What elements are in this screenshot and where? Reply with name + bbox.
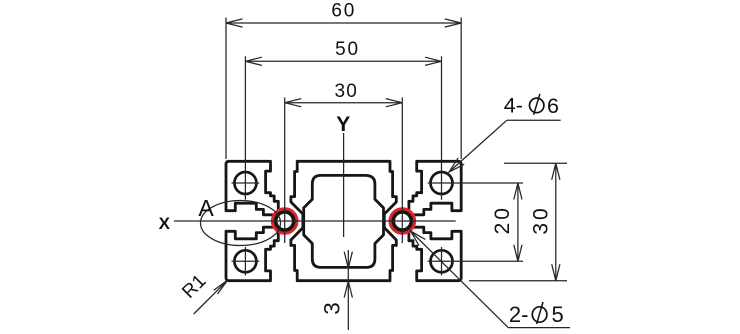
svg-text:6: 6 (547, 94, 559, 118)
svg-text:3: 3 (320, 302, 345, 315)
svg-text:5: 5 (552, 302, 564, 327)
corner hole top-right (431, 172, 453, 194)
label 2-phi5 with leader (411, 231, 571, 328)
X centerline (174, 220, 456, 222)
hole centerline vertical left (50 extension) (244, 56, 246, 200)
hole crosshair bottom-left horizontal (232, 260, 260, 262)
svg-text:A: A (198, 195, 214, 221)
corner hole bottom-left (234, 250, 256, 272)
corner hole bottom-right (431, 250, 453, 272)
dimension 50 (245, 39, 441, 65)
center hole right (red highlight) (392, 210, 413, 231)
hole centerline vertical right (50 extension) (441, 56, 443, 200)
corner hole top-left (234, 172, 256, 194)
dimension 30 right (469, 163, 567, 280)
hole crosshair horizontal top-right / 20-dim extension (428, 182, 523, 184)
dimension 60 (226, 1, 461, 159)
svg-text:20: 20 (491, 205, 514, 234)
center block outline (291, 161, 396, 280)
profile outer outline: corner blocks and slots (226, 161, 461, 280)
dimension 3 bottom (320, 250, 353, 330)
Y centerline (343, 133, 345, 237)
svg-text:30: 30 (530, 205, 553, 234)
red hole centerline vertical left (30 extension) (284, 97, 286, 243)
svg-text:50: 50 (335, 39, 360, 60)
red hole centerline vertical right (30 extension) (401, 97, 403, 243)
svg-text:Y: Y (336, 113, 350, 136)
hole crosshair horizontal top-left (232, 182, 260, 184)
svg-text:4-: 4- (504, 94, 523, 118)
hole crosshair bottom-right horizontal / 20-dim extension (428, 260, 523, 262)
dimension 20 right (491, 183, 522, 261)
label 4-phi6 with leader (449, 94, 561, 172)
svg-text:2-: 2- (509, 302, 529, 327)
svg-text:30: 30 (335, 81, 359, 102)
hole crosshair bottom-right vertical (441, 247, 443, 276)
detail ellipse A (201, 201, 281, 246)
hole crosshair bottom-left vertical (244, 247, 246, 276)
svg-text:X: X (159, 214, 171, 233)
dimension 30 top (285, 81, 403, 107)
center hole left (red highlight) (274, 210, 295, 231)
center cavity (304, 175, 384, 267)
label R1 with leader (178, 271, 227, 314)
svg-text:60: 60 (331, 1, 356, 22)
